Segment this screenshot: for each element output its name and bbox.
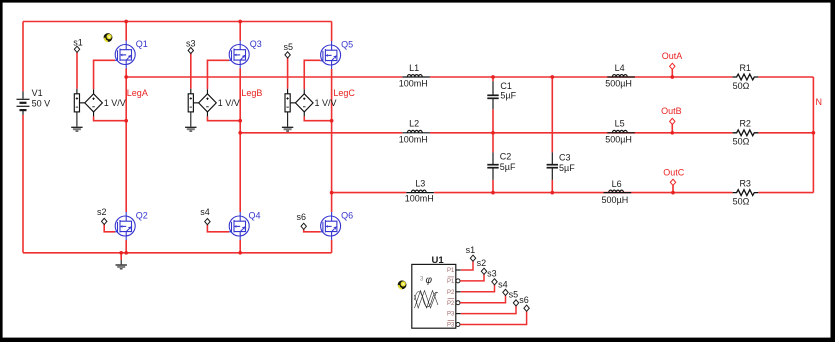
junction line1 C3 column bbox=[550, 75, 554, 79]
wire C1 to line2 bbox=[492, 109, 494, 133]
svg-text:s5: s5 bbox=[283, 42, 293, 52]
svg-text:Q4: Q4 bbox=[249, 211, 261, 221]
wire left rail upper bbox=[22, 22, 24, 92]
wire phase B line segment 3 bbox=[758, 132, 813, 134]
wire phase A line segment 3 bbox=[758, 76, 813, 78]
svg-text:Q1: Q1 bbox=[136, 39, 148, 49]
wire OutB stub bbox=[671, 125, 673, 133]
connector s6 output bbox=[524, 305, 529, 311]
inductor L5 bbox=[607, 130, 635, 132]
connector s2 output bbox=[481, 268, 486, 274]
wire Q5 gate bbox=[304, 60, 320, 89]
transistor Q6 bbox=[320, 212, 340, 240]
transistor Q2 bbox=[115, 212, 135, 240]
vcvs source leg B driver bbox=[188, 89, 216, 117]
wire C2 to line3 bbox=[492, 180, 494, 193]
capacitor C2 bbox=[487, 152, 498, 179]
vcvs source leg C driver bbox=[285, 89, 313, 117]
svg-text:L1: L1 bbox=[409, 63, 419, 73]
junction bottom rail Q2 bbox=[124, 251, 128, 255]
wire leg A mid bbox=[125, 69, 127, 213]
svg-text:N: N bbox=[816, 97, 823, 107]
svg-text:P1: P1 bbox=[447, 268, 455, 274]
svg-text:500µH: 500µH bbox=[602, 195, 629, 205]
inductor L3 bbox=[406, 190, 434, 192]
svg-text:50Ω: 50Ω bbox=[733, 81, 750, 91]
svg-text:OutC: OutC bbox=[663, 167, 685, 177]
svg-text:5µF: 5µF bbox=[500, 162, 516, 172]
svg-text:P1: P1 bbox=[447, 279, 455, 285]
resistor R1 bbox=[733, 74, 759, 80]
wire ground stub bottom rail bbox=[120, 253, 122, 260]
wire Q3 gate bbox=[207, 60, 229, 89]
wire phase C line segment 2 bbox=[434, 192, 732, 194]
wire P2bar to s4 bbox=[460, 296, 505, 303]
svg-text:L3: L3 bbox=[415, 178, 425, 188]
wire P3bar to s6 bbox=[460, 311, 526, 324]
interactive badge near U1 bbox=[398, 280, 407, 289]
svg-text:50 V: 50 V bbox=[32, 99, 51, 109]
junction bottom rail ground bbox=[119, 251, 123, 255]
connector OutC bbox=[670, 179, 675, 185]
svg-text:50Ω: 50Ω bbox=[733, 196, 750, 206]
junction line3 leg C bbox=[330, 191, 334, 195]
svg-text:100mH: 100mH bbox=[399, 79, 428, 89]
ground below vcvs C bbox=[287, 112, 289, 127]
wire line2 to C2 bbox=[492, 133, 494, 153]
svg-text:500µH: 500µH bbox=[605, 134, 632, 144]
wire s4 to Q4 gate bbox=[207, 225, 229, 232]
inductor L2 bbox=[402, 130, 430, 132]
svg-text:C2: C2 bbox=[500, 152, 512, 162]
connector s4 output bbox=[503, 289, 508, 295]
svg-text:s1: s1 bbox=[466, 245, 476, 255]
svg-text:50Ω: 50Ω bbox=[733, 137, 750, 147]
wire phase C line segment 3 bbox=[758, 192, 813, 194]
wire phase B line segment 2 bbox=[430, 132, 733, 134]
svg-text:1 V/V: 1 V/V bbox=[104, 98, 126, 108]
wire right rail node N bbox=[812, 77, 814, 193]
wire leg C mid bbox=[331, 69, 333, 212]
svg-text:s4: s4 bbox=[200, 207, 210, 217]
wire OutA stub bbox=[671, 69, 673, 77]
U1 pin P3 inverted bbox=[456, 323, 460, 327]
connector s1 bbox=[74, 46, 79, 52]
svg-text:Q5: Q5 bbox=[341, 39, 353, 49]
junction line3 C3 column bbox=[550, 191, 554, 195]
connector s4 bbox=[205, 219, 210, 225]
junction vcvs C return bbox=[330, 119, 334, 123]
transistor Q4 bbox=[229, 212, 249, 240]
wire vcvs B return bbox=[207, 116, 240, 120]
junction bottom rail Q4 bbox=[238, 251, 242, 255]
svg-text:P3: P3 bbox=[447, 312, 455, 318]
svg-text:L2: L2 bbox=[409, 119, 419, 129]
vcvs source leg A driver bbox=[74, 89, 102, 117]
wire s1 to vcvs A bbox=[76, 52, 78, 88]
svg-text:OutA: OutA bbox=[662, 51, 683, 61]
wire Q4 source bbox=[239, 240, 241, 253]
U1 pin P2 bbox=[456, 291, 461, 293]
wire C1 column upper bbox=[492, 77, 494, 81]
svg-text:U1: U1 bbox=[432, 255, 445, 266]
connector s6 bbox=[301, 223, 306, 229]
U1 pin P1 bbox=[456, 269, 461, 271]
transistor Q1 bbox=[115, 41, 135, 69]
junction vcvs B return bbox=[238, 119, 242, 123]
ground below vcvs B bbox=[190, 112, 192, 127]
svg-text:s3: s3 bbox=[487, 269, 497, 279]
wire phase B line segment 1 bbox=[240, 132, 402, 134]
svg-text:100mH: 100mH bbox=[399, 134, 428, 144]
connector s5 bbox=[285, 52, 290, 58]
wire Q2 source bbox=[125, 240, 127, 253]
junction line2 leg B bbox=[238, 131, 242, 135]
junction line2 C1 column bbox=[491, 131, 495, 135]
svg-text:s3: s3 bbox=[186, 39, 196, 49]
wire vcvs C return bbox=[304, 116, 331, 120]
svg-text:R2: R2 bbox=[739, 119, 751, 129]
wire bottom rail bbox=[23, 252, 332, 254]
wire Q6 source bbox=[331, 240, 333, 253]
connector s3 bbox=[188, 47, 193, 53]
battery V1 bbox=[17, 91, 30, 114]
wire vcvs A return bbox=[94, 116, 127, 120]
svg-text:1 V/V: 1 V/V bbox=[315, 98, 337, 108]
svg-text:5µF: 5µF bbox=[559, 163, 575, 173]
svg-text:L5: L5 bbox=[615, 119, 625, 129]
svg-text:500µH: 500µH bbox=[605, 79, 632, 89]
wire s5 to vcvs C bbox=[287, 58, 289, 89]
svg-text:V1: V1 bbox=[32, 88, 43, 98]
U1 pin P2 inverted bbox=[456, 301, 460, 305]
junction line2 OutB bbox=[670, 131, 674, 135]
svg-text:s5: s5 bbox=[509, 290, 519, 300]
connector OutB bbox=[670, 118, 675, 124]
U1 pin P1 inverted bbox=[456, 279, 460, 283]
resistor R3 bbox=[733, 190, 759, 196]
connector s5 output bbox=[513, 300, 518, 306]
wire leg B mid bbox=[239, 69, 241, 213]
svg-text:s1: s1 bbox=[73, 38, 83, 48]
wire s3 to vcvs B bbox=[190, 54, 192, 89]
wire left rail lower bbox=[22, 115, 24, 253]
svg-text:s6: s6 bbox=[519, 295, 529, 305]
wire s2 to Q2 gate bbox=[104, 225, 115, 232]
interactive badge near Q1 bbox=[104, 33, 113, 42]
inductor L6 bbox=[604, 190, 632, 192]
wire P1 to s1 bbox=[461, 261, 473, 270]
inductor L4 bbox=[607, 75, 635, 77]
ground below vcvs A bbox=[76, 112, 78, 127]
connector s1 output bbox=[470, 255, 475, 261]
svg-text:C3: C3 bbox=[559, 153, 571, 163]
svg-text:P2: P2 bbox=[447, 290, 455, 296]
svg-text:R3: R3 bbox=[739, 178, 751, 188]
svg-text:P2: P2 bbox=[447, 301, 455, 307]
resistor R2 bbox=[733, 130, 759, 136]
wire phase C line segment 1 bbox=[332, 192, 407, 194]
junction line1 C1 column bbox=[491, 75, 495, 79]
wire P1bar to s2 bbox=[460, 275, 484, 281]
connector OutA bbox=[670, 63, 675, 69]
junction top rail leg A bbox=[124, 20, 128, 24]
wire phase A line segment 1 bbox=[126, 76, 402, 78]
wire P3 to s5 bbox=[461, 306, 516, 314]
ground at bottom rail bbox=[120, 260, 122, 264]
junction line1 leg A bbox=[124, 75, 128, 79]
svg-text:s4: s4 bbox=[498, 280, 508, 290]
svg-text:s6: s6 bbox=[297, 212, 307, 222]
wire P2 to s3 bbox=[461, 285, 495, 292]
wire phase A line segment 2 bbox=[430, 76, 733, 78]
junction line2 right rail bbox=[812, 131, 816, 135]
svg-text:LegA: LegA bbox=[127, 88, 148, 98]
svg-text:LegB: LegB bbox=[241, 88, 262, 98]
capacitor C1 bbox=[487, 81, 498, 109]
svg-text:1 V/V: 1 V/V bbox=[218, 98, 240, 108]
junction line3 C2 column bbox=[491, 191, 495, 195]
transistor Q5 bbox=[320, 41, 340, 69]
svg-text:5µF: 5µF bbox=[500, 90, 516, 100]
capacitor C3 bbox=[547, 152, 558, 179]
junction line3 OutC bbox=[671, 191, 675, 195]
junction top rail leg B bbox=[238, 20, 242, 24]
wire s6 to Q6 gate bbox=[304, 229, 321, 231]
svg-text:L4: L4 bbox=[615, 63, 625, 73]
PWM controller U1 bbox=[412, 264, 456, 328]
transistor Q3 bbox=[229, 41, 249, 69]
svg-text:L6: L6 bbox=[612, 179, 622, 189]
svg-text:Q3: Q3 bbox=[250, 39, 262, 49]
U1 pin P3 bbox=[456, 313, 461, 315]
wire top rail bbox=[23, 21, 332, 23]
U1 waveform sketch bbox=[415, 291, 439, 309]
svg-text:R1: R1 bbox=[739, 63, 751, 73]
wire OutC stub bbox=[672, 185, 674, 192]
wire C3 to line3 bbox=[551, 180, 553, 193]
connector s2 bbox=[102, 218, 107, 224]
svg-text:Q2: Q2 bbox=[136, 210, 148, 220]
wire Q1 gate bbox=[94, 60, 115, 89]
svg-text:s2: s2 bbox=[477, 258, 487, 268]
svg-text:LegC: LegC bbox=[333, 88, 355, 98]
junction vcvs A return bbox=[124, 119, 128, 123]
svg-text:φ: φ bbox=[426, 275, 433, 286]
wire C3 column upper bbox=[551, 77, 553, 152]
svg-text:Q6: Q6 bbox=[341, 210, 353, 220]
wire Q1 drain bbox=[125, 22, 127, 41]
connector s3 output bbox=[492, 279, 497, 285]
wire Q5 drain bbox=[331, 22, 333, 42]
svg-text:100mH: 100mH bbox=[405, 194, 434, 204]
junction line1 OutA bbox=[670, 75, 674, 79]
svg-text:OutB: OutB bbox=[661, 106, 682, 116]
wire Q3 drain bbox=[239, 22, 241, 41]
inductor L1 bbox=[402, 75, 430, 77]
svg-text:s2: s2 bbox=[97, 207, 107, 217]
svg-text:P3: P3 bbox=[447, 323, 455, 329]
